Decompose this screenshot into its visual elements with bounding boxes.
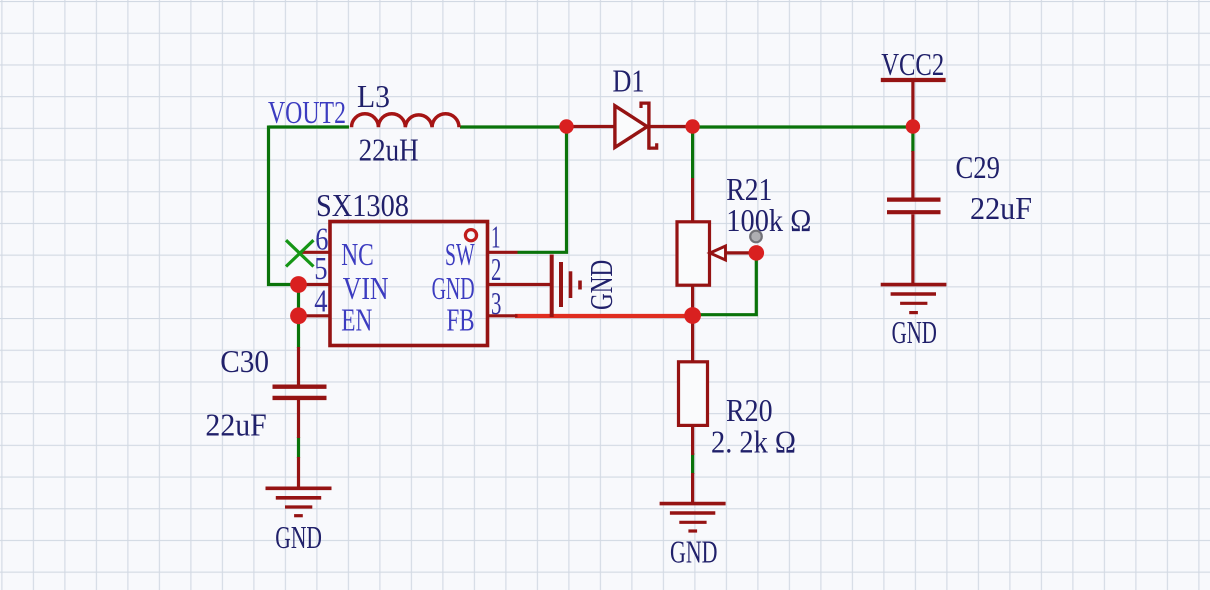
svg-text:22uF: 22uF <box>205 407 266 443</box>
svg-text:2: 2 <box>491 251 501 287</box>
svg-text:FB: FB <box>447 303 475 339</box>
svg-text:100k Ω: 100k Ω <box>726 202 811 238</box>
svg-text:2. 2k Ω: 2. 2k Ω <box>711 424 796 460</box>
svg-text:22uF: 22uF <box>970 190 1032 226</box>
svg-text:GND: GND <box>670 534 717 569</box>
svg-text:GND: GND <box>275 520 322 555</box>
svg-text:C29: C29 <box>956 151 1000 186</box>
svg-text:4: 4 <box>314 284 328 319</box>
svg-text:3: 3 <box>491 286 501 322</box>
svg-text:VOUT2: VOUT2 <box>268 96 346 131</box>
svg-text:C30: C30 <box>220 344 269 379</box>
svg-text:SX1308: SX1308 <box>316 187 409 223</box>
svg-text:GND: GND <box>432 270 475 306</box>
svg-text:NC: NC <box>341 238 374 273</box>
svg-text:1: 1 <box>491 219 500 254</box>
svg-text:5: 5 <box>314 252 327 287</box>
svg-text:L3: L3 <box>357 78 390 114</box>
svg-text:SW: SW <box>445 236 475 272</box>
svg-text:GND: GND <box>585 260 621 310</box>
svg-text:EN: EN <box>341 303 372 338</box>
svg-text:VCC2: VCC2 <box>881 48 944 83</box>
svg-text:GND: GND <box>892 315 937 351</box>
svg-text:D1: D1 <box>613 64 645 99</box>
svg-text:VIN: VIN <box>343 272 389 307</box>
svg-text:22uH: 22uH <box>359 133 419 168</box>
